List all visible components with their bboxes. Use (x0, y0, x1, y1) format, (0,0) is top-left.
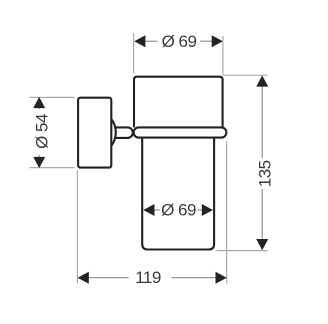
arrow left O69 inner (143, 204, 154, 216)
arrow O54 down (33, 157, 45, 168)
arrow left 119 (78, 272, 89, 284)
stem arm (114, 127, 133, 137)
arrow right O69 inner (202, 204, 213, 216)
dimension line O69 top (145, 40, 158, 42)
extension line 135 bottom (217, 250, 268, 252)
holder ring (134, 127, 227, 137)
extension line 119 right (226, 141, 228, 284)
svg-text:Ø 69: Ø 69 (162, 32, 197, 51)
extension line O54 top (30, 96, 75, 98)
arrow 135 up (256, 75, 268, 86)
extension line O54 bottom (30, 167, 75, 169)
dimension line O69 inner (154, 209, 160, 211)
arrow O54 up (33, 97, 45, 108)
dimension line O54 (38, 104, 40, 109)
svg-text:Ø 54: Ø 54 (33, 114, 52, 149)
svg-text:135: 135 (256, 160, 275, 187)
flare collar on wall plate (111, 119, 115, 145)
tumbler glass top (134, 77, 223, 128)
wall plate (side view) (78, 98, 111, 168)
arrow right 119 (216, 272, 227, 284)
tumbler cup body (142, 138, 214, 249)
arrow 135 down (256, 239, 268, 250)
extension line top-left of O69 (133, 33, 135, 73)
arrow right O69 top (212, 35, 223, 47)
extension line top-right of O69 (222, 36, 224, 75)
svg-text:Ø 69: Ø 69 (161, 201, 196, 220)
dimension line 135 (261, 86, 263, 158)
extension line 135 top (223, 74, 268, 76)
extension line 119 left (76, 171, 78, 284)
arrow left O69 top (134, 35, 145, 47)
svg-text:119: 119 (135, 268, 161, 287)
dimension line 119 (88, 277, 129, 279)
